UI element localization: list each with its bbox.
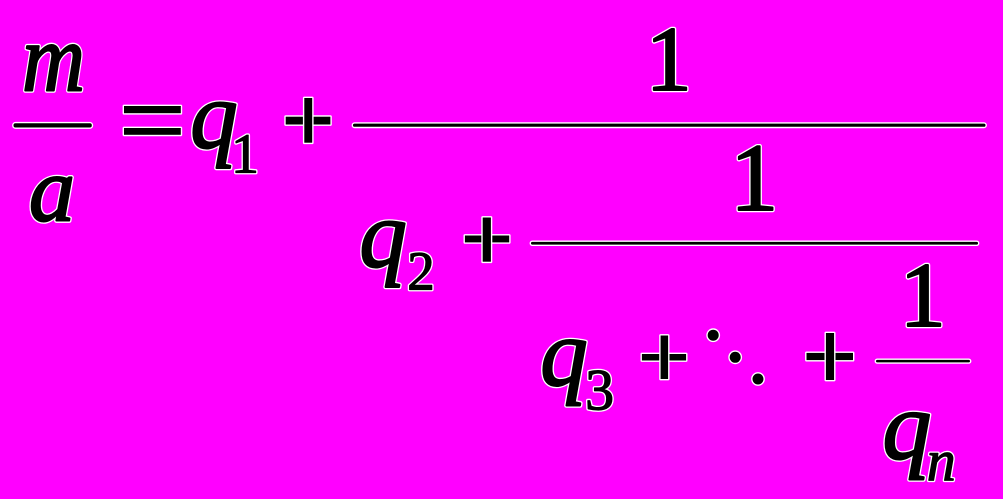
svg-text:1: 1 (730, 124, 778, 231)
svg-text:1: 1 (900, 244, 946, 346)
svg-text:q: q (882, 373, 931, 481)
term q1 (190, 63, 238, 169)
term q3 (540, 300, 588, 406)
term qn (882, 373, 931, 481)
svg-text:1: 1 (646, 8, 692, 110)
subscript 2 of q2 (407, 241, 435, 302)
plus sign 1 (286, 98, 331, 143)
numerator 1 of level-2 fraction (730, 124, 778, 231)
numerator 1 of level-3 fraction (900, 244, 946, 346)
plus sign 4 (807, 333, 854, 380)
svg-text:m: m (22, 5, 85, 112)
subscript n of qn (927, 428, 956, 493)
svg-text:2: 2 (407, 241, 435, 302)
main fraction bar level1 (353, 124, 986, 127)
denominator a (29, 138, 75, 240)
equals sign (124, 106, 181, 135)
fraction bar level2 (531, 242, 978, 245)
diagonal dots (ddots) (708, 330, 764, 385)
plus sign 3 (642, 336, 686, 380)
svg-text:q: q (359, 182, 407, 288)
fraction bar level3 (876, 360, 970, 363)
svg-text:q: q (540, 300, 588, 406)
numerator m (22, 5, 85, 112)
term q2 (359, 182, 407, 288)
subscript 3 of q3 (585, 357, 614, 422)
fraction bar m/a (14, 123, 92, 127)
plus sign 2 (465, 218, 509, 262)
svg-text:3: 3 (585, 357, 614, 422)
svg-text:a: a (29, 138, 75, 240)
subscript 1 of q1 (231, 124, 259, 186)
svg-text:1: 1 (231, 124, 259, 186)
svg-text:n: n (927, 428, 956, 493)
numerator 1 of level-1 fraction (646, 8, 692, 110)
